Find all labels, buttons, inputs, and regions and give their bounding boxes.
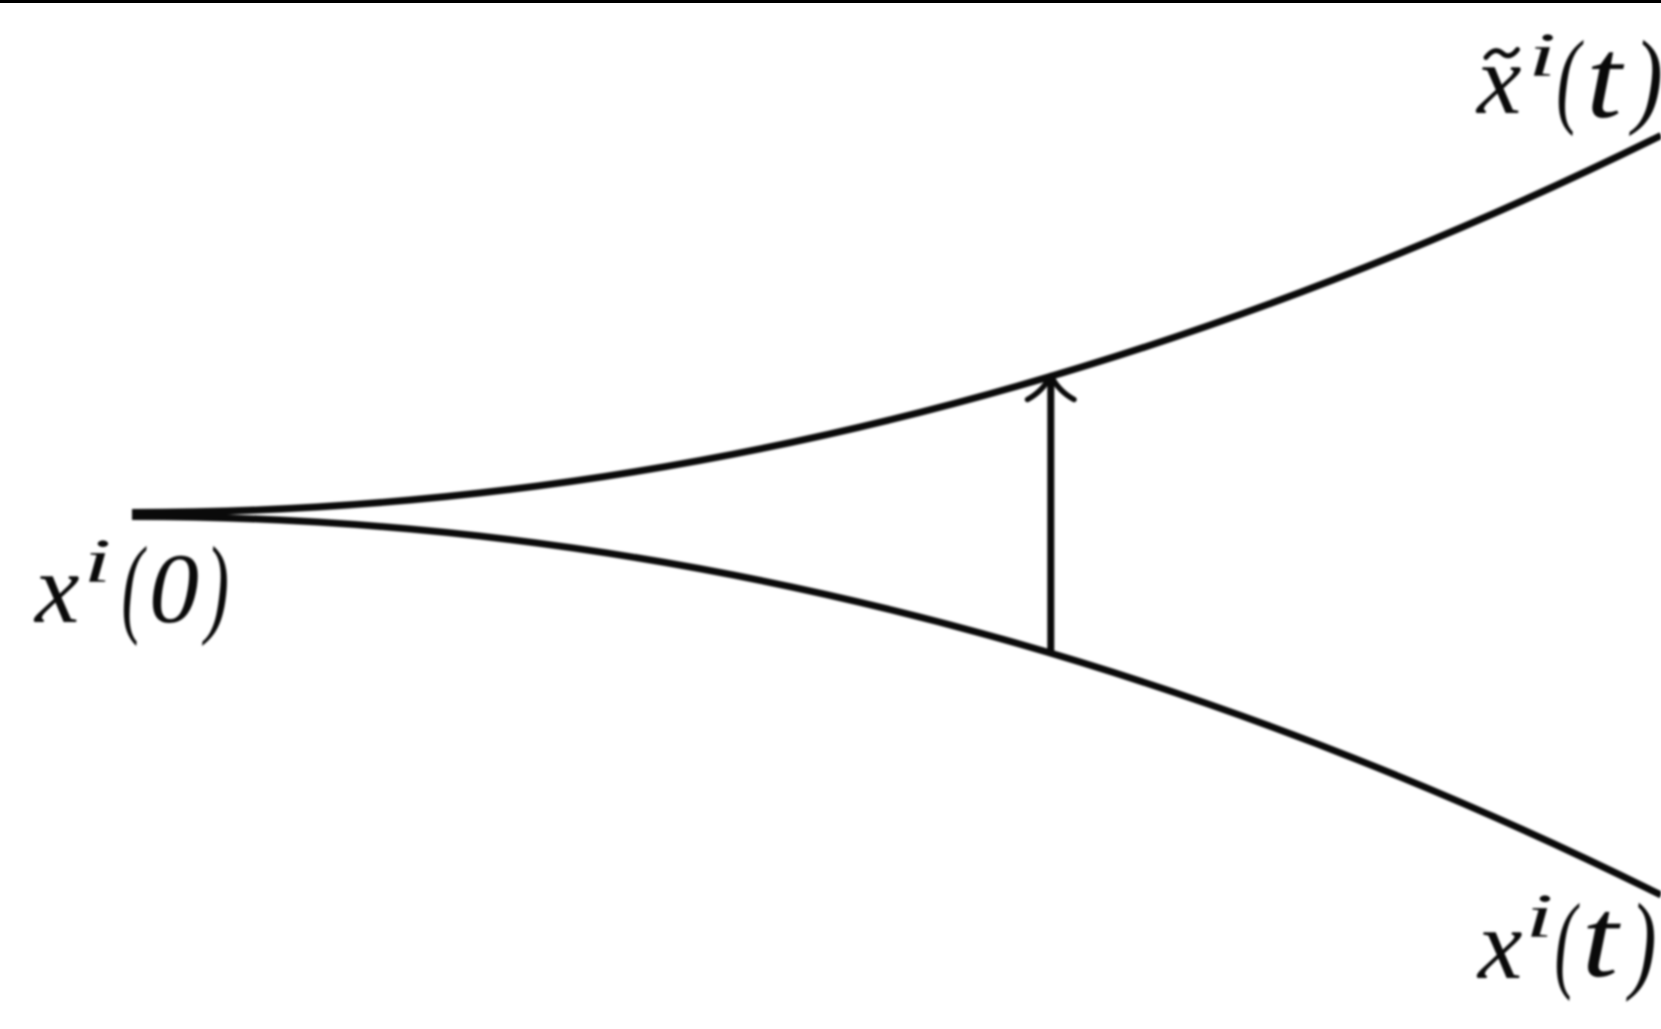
svg-text:t: t xyxy=(1586,16,1625,142)
svg-text:): ) xyxy=(1626,880,1657,1002)
svg-text:(: ( xyxy=(1554,882,1580,1002)
svg-text:i: i xyxy=(1528,21,1556,90)
svg-text:i: i xyxy=(1526,882,1554,951)
label x~i(t): tilde accent xyxy=(1486,50,1518,58)
svg-text:(: ( xyxy=(121,524,146,647)
svg-text:(: ( xyxy=(1556,18,1584,137)
trajectory curve xi(t) (lower) xyxy=(132,517,1661,896)
svg-text:x: x xyxy=(1475,24,1521,135)
svg-text:x: x xyxy=(1476,889,1522,1000)
separation arrow stem xyxy=(1047,379,1054,651)
svg-text:t: t xyxy=(1582,875,1621,1001)
top border bar xyxy=(0,0,1661,3)
svg-text:x: x xyxy=(33,533,79,644)
separation arrow head xyxy=(1028,376,1075,400)
svg-text:0: 0 xyxy=(149,533,199,644)
trajectory curve x~i(t) (upper) xyxy=(132,136,1661,513)
svg-text:): ) xyxy=(1629,20,1661,137)
svg-text:): ) xyxy=(202,525,230,647)
svg-text:i: i xyxy=(84,527,112,596)
